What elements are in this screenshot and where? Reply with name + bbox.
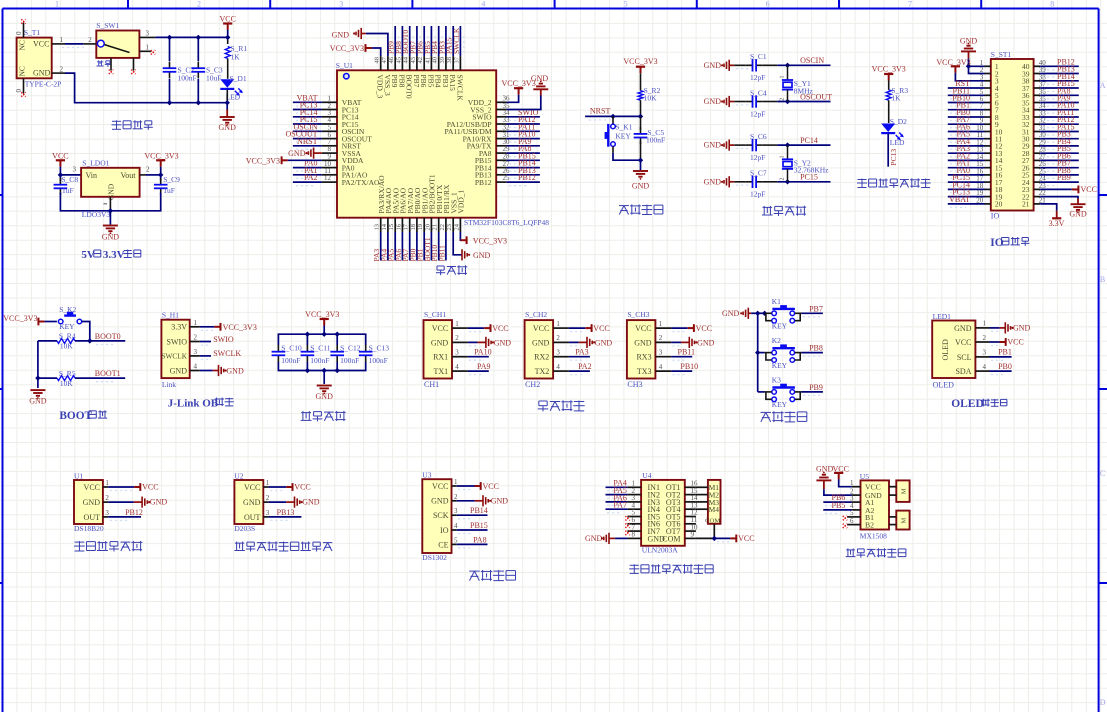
svg-text:VCC: VCC — [492, 324, 508, 333]
power port 3.3V (ST1 pin21) — [1040, 204, 1064, 228]
svg-text:5: 5 — [454, 536, 458, 544]
svg-text:RX2: RX2 — [534, 353, 549, 362]
svg-text:GND: GND — [632, 182, 650, 191]
svg-text:S_R4: S_R4 — [59, 332, 76, 341]
title J-Link OB接口 — [168, 397, 234, 409]
resistor S_R5 10K — [38, 369, 76, 388]
svg-text:PB1: PB1 — [998, 348, 1012, 357]
svg-text:2: 2 — [266, 494, 270, 502]
svg-text:S_T1: S_T1 — [24, 28, 41, 37]
capacitor S_C2 — [163, 62, 197, 83]
svg-text:100nF: 100nF — [281, 356, 300, 365]
svg-text:3: 3 — [266, 509, 270, 517]
svg-text:D: D — [1100, 698, 1106, 707]
power port VCC (CH3) — [671, 324, 712, 333]
svg-text:VCC: VCC — [33, 39, 49, 48]
title 主芯片 — [436, 265, 467, 275]
capacitor S_C9 — [154, 175, 180, 195]
wire PC14 — [763, 136, 831, 145]
junction LDO output cap — [158, 172, 163, 177]
svg-text:RX1: RX1 — [433, 353, 448, 362]
svg-text:VCC_3V3: VCC_3V3 — [3, 314, 37, 323]
wire NRST — [585, 106, 640, 120]
svg-text:RX3: RX3 — [636, 353, 651, 362]
svg-text:2: 2 — [454, 493, 458, 501]
svg-text:U3: U3 — [422, 471, 431, 480]
power ground flag VSSA pin8 — [288, 148, 322, 159]
ST1 left wires and labels — [948, 79, 985, 207]
svg-text:VCC: VCC — [593, 324, 609, 333]
svg-text:SWCLK: SWCLK — [455, 75, 464, 102]
svg-text:4: 4 — [454, 522, 458, 530]
svg-text:16: 16 — [395, 223, 402, 230]
svg-text:VCC: VCC — [294, 483, 310, 492]
svg-text:K3: K3 — [772, 376, 781, 385]
wire D2 to PC13 — [888, 134, 898, 167]
svg-text:2: 2 — [556, 334, 560, 342]
wire gnd to pin1 — [969, 58, 985, 66]
pin T1-top no-connect — [15, 19, 26, 37]
svg-text:S_C11: S_C11 — [310, 343, 330, 352]
svg-text:PB12: PB12 — [475, 178, 492, 187]
svg-text:B2: B2 — [865, 521, 874, 530]
svg-text:GND: GND — [532, 338, 550, 347]
wire PA8 — [457, 535, 488, 548]
svg-text:2: 2 — [780, 178, 786, 181]
pin number 3 (Vin) — [73, 166, 77, 174]
CH3 pin stubs — [655, 320, 671, 371]
wire RX (CH3) — [671, 348, 695, 361]
svg-text:6: 6 — [766, 0, 770, 9]
svg-text:KEY: KEY — [59, 322, 75, 331]
power port VCC_3V3 (indicator) — [872, 65, 906, 90]
mcu pin stubs and numbers — [322, 56, 510, 232]
svg-text:S_SW1: S_SW1 — [96, 21, 119, 30]
svg-text:VCC: VCC — [483, 482, 499, 491]
no-connect B1 B2 — [843, 516, 847, 528]
svg-text:S_LDO1: S_LDO1 — [82, 159, 109, 168]
svg-text:Link: Link — [162, 380, 176, 389]
junction crystal row 4 — [785, 179, 790, 184]
svg-text:GND: GND — [170, 366, 188, 375]
svg-text:VCC: VCC — [738, 534, 754, 543]
crystal S_Y1 8MHz — [780, 65, 814, 101]
svg-text:TX1: TX1 — [434, 367, 449, 376]
svg-text:VCC: VCC — [52, 152, 68, 161]
junction LDO gnd — [108, 208, 113, 213]
svg-text:VCC: VCC — [142, 483, 158, 492]
svg-text:GND: GND — [704, 61, 722, 70]
junction bot C12 — [335, 368, 340, 373]
svg-text:6: 6 — [850, 517, 854, 525]
no-connect IN5-IN7 — [625, 516, 629, 535]
svg-text:PB7: PB7 — [809, 304, 823, 313]
svg-text:19: 19 — [417, 224, 424, 231]
mcu U1 body — [336, 61, 549, 227]
svg-text:SWCLK: SWCLK — [161, 352, 187, 361]
junction bot C11 — [305, 368, 310, 373]
svg-text:1: 1 — [454, 478, 458, 486]
svg-text:LED: LED — [890, 138, 905, 147]
driver U4 ULN2003A — [641, 471, 685, 554]
svg-text:PB11: PB11 — [437, 245, 446, 262]
svg-text:Vin: Vin — [86, 171, 98, 180]
junction R5 gnd rail — [35, 375, 40, 380]
power port VCC top — [219, 15, 235, 31]
pin T1 GND 2 — [52, 65, 65, 73]
svg-text:1K: 1K — [891, 93, 901, 102]
svg-text:24: 24 — [453, 223, 460, 230]
svg-text:PB11: PB11 — [678, 348, 696, 357]
svg-text:GND: GND — [704, 177, 722, 186]
wire key to bottom — [613, 146, 641, 160]
LED S_D1 — [220, 74, 247, 102]
svg-text:S_CH2: S_CH2 — [525, 310, 547, 319]
svg-text:1: 1 — [780, 76, 786, 79]
power port VCC (ST1 pin23) — [1040, 185, 1097, 194]
svg-text:U4: U4 — [642, 471, 651, 480]
junction K2/R4 — [87, 338, 92, 343]
svg-text:VCC_3V3: VCC_3V3 — [223, 323, 257, 332]
svg-text:VDD_1: VDD_1 — [457, 190, 466, 214]
svg-text:2: 2 — [780, 98, 786, 101]
svg-text:VCC: VCC — [244, 483, 260, 492]
ground GND (oled) — [990, 322, 1031, 333]
svg-text:VCC: VCC — [219, 15, 235, 24]
svg-text:GND: GND — [332, 30, 350, 39]
mcu top wires and vertical net labels — [387, 26, 464, 56]
title 复位电路 — [619, 204, 663, 214]
mcu bottom wires and vertical net labels — [372, 232, 446, 262]
svg-text:GND: GND — [816, 465, 834, 474]
svg-text:22: 22 — [439, 224, 446, 231]
svg-text:PB14: PB14 — [470, 506, 488, 515]
junction crystal row 3 — [785, 142, 790, 147]
svg-text:OLED: OLED — [941, 339, 950, 361]
svg-text:3: 3 — [339, 0, 343, 9]
svg-text:S_K2: S_K2 — [59, 305, 76, 314]
ground GND (U4) — [585, 533, 627, 544]
svg-text:1uF: 1uF — [163, 186, 175, 195]
pin SW1 3 — [139, 30, 155, 38]
svg-text:VCC: VCC — [533, 324, 549, 333]
svg-text:1K: 1K — [231, 53, 241, 62]
svg-text:9: 9 — [691, 531, 695, 539]
svg-text:5V: 5V — [81, 249, 95, 261]
motor connector MB — [889, 511, 910, 530]
ground GND flag (crystal row 2) — [704, 96, 735, 107]
svg-text:PB15: PB15 — [470, 521, 488, 530]
svg-text:8: 8 — [632, 531, 636, 539]
capacitor S_C1 12pF — [734, 52, 767, 82]
ground GND (reset) — [632, 171, 650, 191]
svg-text:STM32F103C8T6_LQFP48: STM32F103C8T6_LQFP48 — [464, 218, 549, 227]
svg-text:100nF: 100nF — [310, 356, 329, 365]
svg-text:GND: GND — [722, 309, 740, 318]
svg-text:COM: COM — [662, 534, 680, 543]
svg-text:VCC_3V3: VCC_3V3 — [872, 65, 906, 74]
svg-text:DS18B20: DS18B20 — [74, 524, 104, 533]
svg-text:DS1302: DS1302 — [422, 553, 447, 562]
power port VCC (LDO input) — [52, 152, 68, 167]
svg-text:13: 13 — [374, 224, 381, 231]
svg-text:4: 4 — [455, 363, 459, 371]
filter bottom bus — [278, 362, 365, 384]
svg-text:32.768KHz: 32.768KHz — [794, 166, 829, 175]
resistor S_R2 — [638, 86, 661, 116]
ground GND VSS_3 pin47 — [332, 28, 388, 56]
svg-text:KEY: KEY — [772, 361, 788, 370]
wire R4 left rail — [38, 341, 57, 388]
svg-text:1: 1 — [983, 320, 987, 328]
svg-text:S_C12: S_C12 — [340, 343, 361, 352]
svg-text:IO: IO — [991, 212, 1000, 221]
svg-text:VCC: VCC — [696, 324, 712, 333]
junction top rail C3 — [196, 35, 201, 40]
svg-text:0: 0 — [15, 31, 23, 35]
svg-text:8: 8 — [1050, 0, 1054, 9]
svg-text:GND: GND — [585, 534, 603, 543]
power port VCC (oled) — [990, 338, 1024, 347]
wire T1 GND down to rail — [65, 73, 170, 103]
svg-text:S_H1: S_H1 — [162, 310, 179, 319]
junction key2 branch — [755, 350, 760, 355]
connector S_T1 TYPE-C-2P — [17, 28, 62, 88]
junction bus C12 — [335, 332, 340, 337]
svg-text:S_D2: S_D2 — [890, 117, 907, 126]
svg-text:S_CH3: S_CH3 — [627, 310, 649, 319]
svg-text:PB12: PB12 — [518, 173, 536, 182]
wire D1 to bottom rail — [170, 90, 228, 103]
key S_K2 — [58, 305, 81, 331]
regulator S_LDO1 — [81, 159, 140, 220]
ground GND flag (crystal row 3) — [704, 140, 735, 151]
wire PA7 (U4) — [606, 501, 628, 513]
ground GND (U3) — [457, 495, 508, 506]
svg-text:VCC: VCC — [84, 483, 100, 492]
svg-text:VCC_3V3: VCC_3V3 — [330, 44, 364, 53]
wire PC15 — [763, 173, 831, 182]
svg-text:M4: M4 — [709, 505, 720, 514]
svg-text:2: 2 — [659, 334, 663, 342]
svg-text:M: M — [901, 488, 908, 494]
svg-text:12pF: 12pF — [750, 153, 765, 162]
junction crystal row 1 — [785, 63, 790, 68]
U1 pin stubs — [103, 479, 110, 517]
wire C3 top — [197, 37, 199, 61]
svg-text:J-Link OB: J-Link OB — [168, 397, 219, 409]
svg-text:VCC: VCC — [635, 324, 651, 333]
svg-text:PC14: PC14 — [800, 136, 818, 145]
wire C3 bottom — [197, 79, 199, 103]
svg-text:S_U1: S_U1 — [336, 61, 353, 70]
svg-text:GND: GND — [431, 338, 449, 347]
mcu right wires and net labels — [507, 108, 540, 186]
module U2 D203S — [234, 472, 263, 534]
ground GND (filter) — [316, 386, 334, 401]
svg-text:TX2: TX2 — [535, 367, 550, 376]
svg-text:40: 40 — [432, 57, 439, 64]
ground GND (ST1 top) — [960, 36, 978, 58]
svg-text:CH2: CH2 — [525, 380, 540, 389]
svg-text:1: 1 — [146, 44, 150, 52]
svg-text:PA2: PA2 — [304, 173, 318, 182]
svg-text:44: 44 — [403, 56, 410, 63]
svg-text:C: C — [1100, 469, 1105, 478]
junction bus C11 — [305, 332, 310, 337]
svg-text:8MHz: 8MHz — [794, 86, 814, 95]
ST1 right wires and labels — [1040, 57, 1079, 185]
svg-text:PB9: PB9 — [1057, 173, 1071, 182]
svg-text:23: 23 — [446, 224, 453, 231]
svg-text:2: 2 — [455, 334, 459, 342]
ground GND (LDO) — [102, 226, 120, 242]
title 人体热释电感应模块 — [234, 541, 332, 551]
H1 pin stubs — [190, 319, 200, 371]
wire TX (CH3) — [671, 362, 698, 375]
svg-text:OLED: OLED — [933, 381, 955, 390]
svg-text:S_C9: S_C9 — [163, 175, 180, 184]
power port VCC (U1) — [108, 483, 158, 492]
svg-text:3: 3 — [556, 349, 560, 357]
svg-text:2: 2 — [60, 65, 64, 73]
connector S_ST1 body — [991, 50, 1034, 221]
S_ST1 interior pin names — [995, 62, 1030, 209]
svg-text:M: M — [901, 518, 908, 524]
svg-text:39: 39 — [439, 57, 446, 64]
wire gnd to pin2 — [969, 66, 985, 73]
svg-text:GND: GND — [494, 338, 512, 347]
connector S_CH1 — [424, 310, 453, 389]
junction top rail R1 — [225, 35, 230, 40]
svg-text:1: 1 — [556, 320, 560, 328]
svg-text:10uF: 10uF — [206, 74, 221, 83]
svg-text:18: 18 — [410, 224, 417, 231]
svg-text:37: 37 — [453, 56, 460, 63]
power port VCC_3V3 (LDO out) — [144, 152, 178, 167]
svg-text:GND: GND — [302, 498, 320, 507]
svg-text:OUT: OUT — [84, 513, 101, 522]
junction bot gnd stem — [322, 368, 327, 373]
pin LDO Vout 2 — [140, 166, 150, 175]
svg-text:GND: GND — [1013, 324, 1031, 333]
svg-text:S_C4: S_C4 — [750, 88, 767, 97]
svg-text:PA9: PA9 — [477, 362, 491, 371]
junction top rail C2 — [167, 35, 172, 40]
svg-text:PB8: PB8 — [809, 344, 823, 353]
svg-text:S_C7: S_C7 — [750, 169, 767, 178]
pin SW1 2 — [83, 36, 96, 44]
power port VCC (U4 COM) — [717, 534, 755, 543]
svg-text:GND: GND — [226, 367, 244, 376]
pin LDO GND 1 — [104, 197, 111, 211]
wires OT1-OT4 to M — [696, 487, 708, 509]
svg-text:3: 3 — [73, 166, 77, 174]
power port VCC (CH2) — [569, 324, 610, 333]
svg-text:GND: GND — [150, 498, 168, 507]
svg-text:SDA: SDA — [955, 367, 971, 376]
wire TX (CH2) — [569, 362, 592, 375]
title 串口电路 — [538, 400, 585, 411]
wire PA5 (U4) — [606, 486, 628, 498]
svg-text:IO: IO — [440, 526, 449, 535]
svg-text:1uF: 1uF — [62, 186, 74, 195]
key K1 — [764, 297, 801, 331]
wire PB8 — [801, 344, 823, 357]
title 滤波电路 — [301, 411, 346, 422]
svg-text:4: 4 — [556, 363, 560, 371]
driver U5 MX1508 — [860, 472, 889, 541]
svg-text:SWCLK: SWCLK — [213, 349, 241, 358]
svg-text:TYPE-C-2P: TYPE-C-2P — [25, 80, 62, 89]
svg-text:Vout: Vout — [121, 171, 137, 180]
junction reset gnd — [638, 158, 643, 163]
ground GND flag (crystal row 4) — [704, 176, 735, 187]
svg-text:U2: U2 — [234, 472, 243, 481]
svg-text:1: 1 — [55, 0, 59, 9]
svg-text:PB0: PB0 — [998, 362, 1012, 371]
svg-text:OSCIN: OSCIN — [800, 56, 824, 65]
svg-text:2: 2 — [88, 36, 92, 44]
svg-text:4: 4 — [481, 0, 485, 9]
svg-text:GND: GND — [243, 498, 261, 507]
svg-text:12pF: 12pF — [750, 109, 765, 118]
svg-text:PC13: PC13 — [889, 149, 898, 166]
svg-text:VCC: VCC — [1081, 185, 1097, 194]
mcu left wires and net labels — [285, 93, 321, 185]
wire OSCOUT — [763, 92, 832, 101]
svg-text:VCC_3V3: VCC_3V3 — [623, 57, 657, 66]
power port VCC_3V3 VDD_1 pin24 — [460, 232, 507, 246]
svg-text:LED1: LED1 — [933, 312, 952, 321]
svg-text:GND: GND — [704, 97, 722, 106]
pin T1-bottom no-connect — [15, 78, 26, 96]
pin T1 VCC 1 — [52, 36, 65, 44]
svg-text:3: 3 — [105, 509, 109, 517]
junction NRST cap — [638, 114, 643, 119]
wire OUT (U1) — [108, 508, 143, 521]
svg-text:47: 47 — [381, 56, 388, 63]
resistor S_R4 10K — [57, 332, 76, 351]
wire BOOT0 — [75, 332, 125, 345]
title 电源电路 — [112, 120, 153, 130]
junction keys branch — [755, 311, 760, 316]
svg-text:100nF: 100nF — [369, 356, 388, 365]
wire PB7 — [801, 304, 823, 317]
svg-text:1: 1 — [780, 156, 786, 159]
wire to K3 — [758, 391, 765, 393]
svg-text:3: 3 — [659, 349, 663, 357]
wire K2 to BOOT0 row — [82, 322, 90, 341]
ground GND (CH2) — [569, 337, 612, 348]
svg-text:1: 1 — [194, 319, 198, 327]
power port VCC_3V3 VDD_2 pin36 — [501, 79, 535, 102]
svg-text:NC: NC — [18, 40, 27, 50]
svg-text:3.3V: 3.3V — [171, 323, 187, 332]
svg-text:NRST: NRST — [590, 106, 611, 115]
svg-text:SWIO: SWIO — [167, 337, 188, 346]
power port VCC_3V3 (boot) — [3, 314, 57, 325]
svg-text:GND: GND — [473, 251, 491, 260]
svg-text:MX1508: MX1508 — [860, 532, 887, 541]
power port VCC_3V3 VDDA pin9 — [246, 156, 322, 165]
wire COM — [696, 524, 730, 539]
title 程序运行指示灯 — [857, 178, 931, 188]
svg-text:PB10: PB10 — [680, 362, 698, 371]
wire OUT (U2) — [269, 508, 302, 521]
svg-text:PA3: PA3 — [575, 348, 589, 357]
svg-text:K2: K2 — [772, 336, 781, 345]
